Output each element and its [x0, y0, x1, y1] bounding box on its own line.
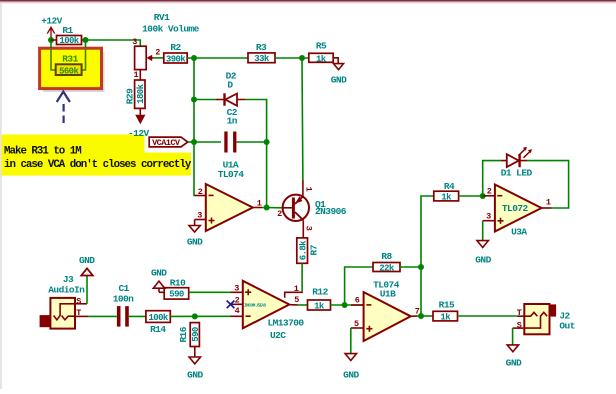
svg-text:R31: R31	[62, 53, 78, 64]
resistor R14	[146, 311, 170, 323]
svg-text:100k Volume: 100k Volume	[142, 24, 200, 35]
node junction R2/R3 rail	[191, 55, 197, 61]
svg-text:GND: GND	[151, 268, 167, 279]
svg-text:R14: R14	[150, 324, 166, 335]
svg-text:R12: R12	[312, 287, 328, 298]
svg-text:R5: R5	[316, 41, 327, 52]
svg-text:VCA1CV: VCA1CV	[152, 138, 181, 148]
svg-text:TL074: TL074	[218, 169, 245, 180]
svg-text:1: 1	[133, 70, 138, 80]
node junction R12/R8	[342, 302, 348, 308]
top window border	[0, 0, 616, 1]
wire U3A feedback loop	[527, 161, 569, 208]
svg-text:GND: GND	[506, 358, 522, 369]
svg-text:2N3906: 2N3906	[315, 206, 347, 217]
note highlight box line2	[2, 153, 192, 176]
svg-text:1: 1	[546, 198, 551, 208]
ground at U1A pin3	[194, 220, 196, 226]
wire C2 branch left	[194, 141, 221, 143]
svg-text:2: 2	[277, 209, 282, 219]
power -12V	[139, 108, 141, 115]
svg-text:6: 6	[355, 296, 360, 306]
svg-text:R7: R7	[308, 244, 319, 255]
svg-text:2: 2	[155, 48, 160, 58]
svg-text:AudioIn: AudioIn	[48, 285, 85, 296]
svg-text:590: 590	[191, 327, 201, 342]
ground at U1B pin5	[350, 328, 352, 354]
svg-text:390k: 390k	[166, 54, 186, 64]
connector J2 Out	[548, 304, 556, 316]
svg-text:22k: 22k	[379, 264, 395, 274]
node junction right of R1	[83, 37, 89, 43]
svg-text:1: 1	[303, 187, 313, 192]
node junction R3/R5/Q1	[299, 55, 305, 61]
svg-text:Make R31 to 1M: Make R31 to 1M	[4, 146, 81, 158]
svg-text:GND: GND	[187, 237, 203, 248]
svg-text:-12V: -12V	[128, 128, 149, 139]
svg-text:5: 5	[294, 295, 299, 305]
wire R1 to RV1 top	[86, 40, 141, 46]
svg-text:U2C: U2C	[270, 330, 286, 341]
wire Q1 emitter up to R3/R5 rail	[301, 58, 304, 180]
svg-text:33k: 33k	[254, 54, 270, 64]
svg-text:U1B: U1B	[380, 289, 396, 300]
wire VCA1CV to junction	[188, 141, 194, 143]
svg-text:INCOM.BIAS: INCOM.BIAS	[244, 303, 267, 308]
svg-text:GND: GND	[343, 369, 359, 380]
svg-text:1k: 1k	[316, 54, 327, 64]
svg-text:D: D	[227, 80, 233, 91]
ground flag at R5	[333, 58, 338, 64]
J3 S pin to ground	[75, 303, 87, 305]
node junction U3A pin2	[480, 193, 486, 199]
wire R31 left leg	[50, 42, 52, 48]
R31 highlight shadow	[43, 52, 105, 92]
wire R3 to R5	[275, 57, 309, 59]
svg-text:1k: 1k	[441, 193, 452, 203]
svg-text:in case VCA don't closes corre: in case VCA don't closes correctly	[4, 159, 192, 171]
svg-text:R3: R3	[256, 42, 267, 53]
J3 T pin wire to C1	[75, 315, 88, 317]
wire R31 right leg	[85, 42, 87, 48]
wire feedback rail down to U1A output	[266, 142, 268, 208]
svg-text:180k: 180k	[136, 83, 146, 103]
OTA U2C LM13700	[243, 281, 289, 329]
node junction D2 left	[191, 97, 197, 103]
svg-text:R1: R1	[62, 25, 73, 36]
wire R14 to U2C pin4	[170, 315, 230, 317]
svg-text:GND: GND	[187, 370, 203, 381]
wire R15 to J2	[458, 315, 518, 317]
node junction left of R1	[48, 37, 54, 43]
wire R8 right to feedback rail	[400, 266, 421, 268]
wire R10 to U2C pin3	[189, 291, 231, 293]
wire R12 to U1B pin6	[331, 304, 364, 306]
node junction U1B output	[418, 313, 424, 319]
svg-text:J3: J3	[63, 274, 74, 285]
svg-text:4: 4	[235, 306, 240, 316]
svg-text:100k: 100k	[59, 36, 79, 46]
wire vertical rail x=421	[421, 196, 434, 316]
left window border	[0, 3, 2, 389]
wire C1 to R14	[129, 315, 146, 317]
svg-text:560k: 560k	[59, 66, 79, 76]
svg-text:Out: Out	[559, 321, 574, 332]
ground at U3A pin3	[482, 221, 484, 241]
ground below R16	[194, 347, 196, 358]
svg-text:R2: R2	[170, 42, 181, 53]
wire RV1 wiper to R2	[154, 57, 164, 59]
svg-text:C1: C1	[119, 283, 130, 294]
svg-text:GND: GND	[79, 255, 95, 266]
svg-text:LM13700: LM13700	[267, 318, 304, 329]
svg-text:R8: R8	[381, 251, 392, 262]
no-connect X on U2C pin2	[227, 301, 235, 309]
svg-text:GND: GND	[475, 255, 491, 266]
wire C2 right	[236, 141, 266, 143]
wire R2 to R3	[187, 57, 248, 59]
svg-text:GND: GND	[331, 74, 347, 85]
svg-text:100n: 100n	[113, 294, 134, 305]
svg-text:U3A: U3A	[511, 227, 527, 238]
svg-text:100k: 100k	[148, 313, 168, 323]
svg-text:1k: 1k	[314, 301, 325, 311]
node junction C2 right	[264, 139, 270, 145]
svg-text:D1 LED: D1 LED	[501, 168, 533, 179]
svg-text:1: 1	[294, 284, 299, 294]
J2 T pin	[517, 315, 524, 317]
wire D2 anode over to feedback rail	[245, 100, 267, 143]
wire D2 branch left	[194, 99, 216, 101]
note highlight box line1	[2, 135, 145, 154]
blue annotation arrow	[57, 92, 70, 102]
svg-text:6.8k: 6.8k	[298, 240, 308, 260]
svg-text:1n: 1n	[227, 115, 238, 126]
wire RV1 bottom to R29	[139, 70, 141, 80]
wire rail x=194 down to U1A pin2	[193, 58, 196, 196]
svg-text:R15: R15	[439, 299, 455, 310]
ground above J3	[81, 268, 93, 275]
svg-text:+12V: +12V	[41, 16, 62, 27]
wire up to R8	[345, 267, 373, 305]
svg-text:1k: 1k	[440, 313, 451, 323]
node junction R14/R16	[192, 313, 198, 319]
svg-text:RV1: RV1	[154, 12, 170, 23]
op-amp U3A	[495, 185, 542, 232]
R31 highlight box	[40, 48, 102, 88]
node junction C2 left	[191, 139, 197, 145]
ground at R10 left	[159, 288, 164, 292]
svg-text:R16: R16	[178, 326, 189, 342]
svg-text:TL072: TL072	[502, 203, 529, 214]
wire R7 bottom to U2C pin1	[301, 263, 303, 291]
ground at J2	[507, 345, 518, 352]
svg-text:590: 590	[169, 290, 184, 300]
node junction R8/rail	[418, 264, 424, 270]
node junction U1A output	[264, 205, 270, 211]
J2 S pin to ground	[513, 327, 525, 329]
svg-text:R10: R10	[170, 277, 186, 288]
svg-text:3: 3	[304, 226, 314, 231]
global label VCA1CV	[149, 137, 188, 147]
wire R4 to U3A pin2	[459, 195, 483, 197]
svg-text:S: S	[76, 297, 81, 307]
svg-text:R4: R4	[444, 181, 455, 192]
